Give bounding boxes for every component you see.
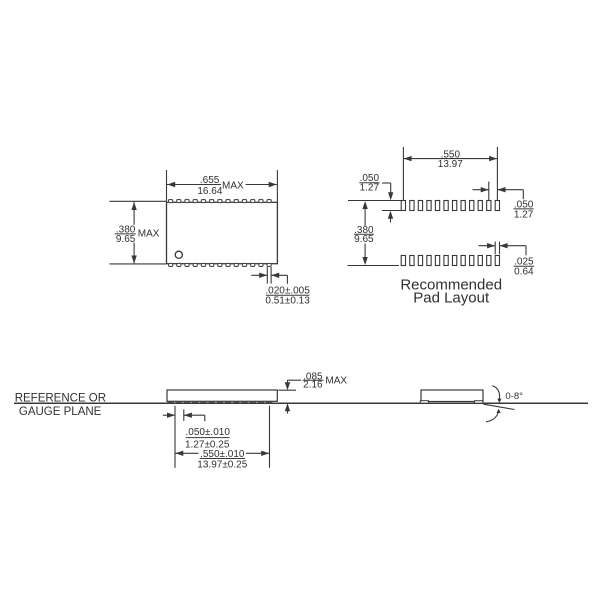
svg-text:2.16: 2.16 [303, 380, 323, 391]
svg-text:9.65: 9.65 [116, 234, 136, 245]
svg-text:Pad Layout: Pad Layout [413, 290, 490, 307]
side view body [167, 390, 277, 401]
pad layout: top reference line [348, 201, 401, 211]
svg-text:16.64: 16.64 [197, 186, 222, 197]
package top view: top edge pins [169, 200, 272, 203]
svg-text:13.97: 13.97 [438, 159, 463, 170]
svg-text:0.51±0.13: 0.51±0.13 [265, 295, 310, 306]
svg-text:13.97±0.25: 13.97±0.25 [197, 459, 247, 470]
dimension .550±.010/13.97±0.25 (lead span, side view) [175, 406, 269, 471]
svg-text:MAX: MAX [325, 376, 347, 387]
pad layout: bottom row pads [401, 256, 499, 266]
pad layout: top row pads [401, 201, 499, 211]
svg-text:0.64: 0.64 [514, 267, 534, 278]
dimension .050/1.27 (pad height) [359, 173, 393, 222]
dimension .655/16.64 MAX (package length) [167, 170, 278, 202]
package top view: bottom edge pins [169, 263, 272, 266]
dimension .550/13.97 (pad row span) [403, 147, 497, 200]
dimension .380/9.65 MAX (package width) [109, 201, 166, 264]
caption: Recommended Pad Layout [400, 277, 502, 307]
lead angle 0-8 degrees callout [484, 386, 524, 422]
svg-text:.655: .655 [200, 175, 220, 186]
dimension .050±.010/1.27±0.25 (lead pitch, side view) [163, 406, 231, 468]
dimension .085/2.16 MAX (package height) [278, 371, 347, 413]
pin 1 indicator circle [175, 251, 182, 258]
svg-text:MAX: MAX [138, 229, 160, 240]
svg-text:REFERENCE OR: REFERENCE OR [15, 392, 106, 404]
side view leads (feet) [167, 401, 272, 403]
pad layout: bottom reference line [348, 265, 400, 267]
dimension .380/9.65 (pad row outer spacing) [354, 201, 374, 265]
dimension .020±.005/0.51±0.13 (lead width) [251, 267, 310, 306]
seating / gauge plane line [14, 402, 588, 404]
package top view body [167, 202, 278, 263]
svg-text:.050±.010: .050±.010 [185, 427, 230, 438]
svg-text:0-8°: 0-8° [505, 391, 523, 402]
dimension .050/1.27 (pad pitch) [473, 182, 534, 221]
svg-text:MAX: MAX [222, 180, 244, 191]
dimension .025/0.64 (pad width) [479, 242, 535, 278]
svg-text:9.65: 9.65 [354, 234, 374, 245]
svg-text:1.27: 1.27 [360, 183, 380, 194]
svg-text:GAUGE PLANE: GAUGE PLANE [19, 406, 102, 418]
label REFERENCE OR GAUGE PLANE [15, 392, 106, 418]
svg-text:1.27: 1.27 [514, 209, 534, 220]
angled side view feet [420, 401, 483, 404]
angled side view body [421, 390, 483, 402]
